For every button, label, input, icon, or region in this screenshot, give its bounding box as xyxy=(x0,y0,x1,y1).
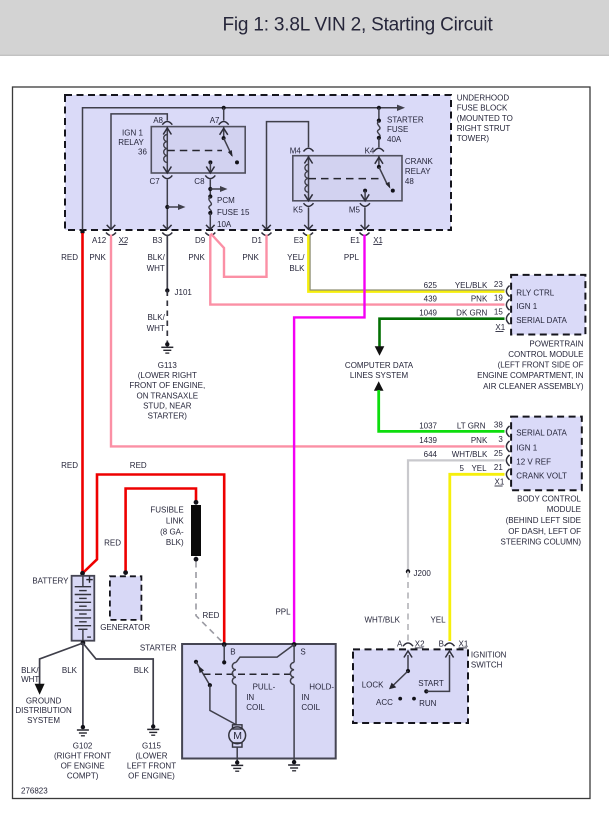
svg-text:BLK: BLK xyxy=(62,666,78,675)
starter S terminal xyxy=(292,642,297,647)
wire YEL/BLK E3 to PCM RLY CTRL xyxy=(308,235,504,292)
svg-text:IGNITION: IGNITION xyxy=(471,651,507,660)
svg-text:IGN 1: IGN 1 xyxy=(516,444,537,453)
module BCM (body control module) xyxy=(511,417,582,491)
svg-text:YEL/: YEL/ xyxy=(287,253,305,262)
svg-text:C7: C7 xyxy=(150,177,161,186)
svg-text:COIL: COIL xyxy=(246,703,265,712)
wire BLK/WHT dashed J101 to G113 xyxy=(166,291,168,345)
wire PNK jumper D9 to D1 xyxy=(211,234,267,277)
svg-text:Fig 1: 3.8L VIN 2, Starting Ci: Fig 1: 3.8L VIN 2, Starting Circuit xyxy=(223,15,494,36)
pin 3 IGN 1 xyxy=(506,441,509,452)
svg-text:10A: 10A xyxy=(217,220,232,229)
svg-text:BLK/: BLK/ xyxy=(21,666,39,675)
svg-text:WHT: WHT xyxy=(21,675,39,684)
svg-text:LINK: LINK xyxy=(166,517,184,526)
svg-text:LINES SYSTEM: LINES SYSTEM xyxy=(350,371,409,380)
svg-text:ACC: ACC xyxy=(376,698,393,707)
wire branch from C7 xyxy=(165,205,169,209)
relay 48 coil xyxy=(308,156,310,201)
fuse F40 STARTER FUSE xyxy=(378,108,380,121)
svg-text:POWERTRAIN: POWERTRAIN xyxy=(529,339,583,348)
svg-text:25: 25 xyxy=(494,449,503,458)
contact START to pin B xyxy=(424,689,428,693)
svg-text:OF ENGINE: OF ENGINE xyxy=(61,762,105,771)
svg-text:1049: 1049 xyxy=(419,309,437,318)
starter pull-in coil xyxy=(232,662,236,684)
svg-text:START: START xyxy=(418,679,444,688)
node A8 xyxy=(162,122,172,125)
svg-text:X1: X1 xyxy=(495,477,505,486)
svg-text:CRANK VOLT: CRANK VOLT xyxy=(516,472,567,481)
wire D1 riser to M4 xyxy=(267,122,309,229)
node M4 xyxy=(304,148,314,151)
svg-text:STARTER: STARTER xyxy=(140,643,177,652)
svg-text:FUSE: FUSE xyxy=(387,125,408,134)
svg-text:FUSE 15: FUSE 15 xyxy=(217,208,250,217)
svg-text:625: 625 xyxy=(424,281,438,290)
svg-text:X1: X1 xyxy=(459,639,469,648)
svg-text:YEL: YEL xyxy=(471,464,487,473)
svg-text:GROUND: GROUND xyxy=(26,696,62,705)
svg-text:S: S xyxy=(300,648,305,657)
relay 48 M5 stub xyxy=(363,189,367,193)
generator G1 xyxy=(123,570,128,575)
svg-text:(RIGHT FRONT: (RIGHT FRONT xyxy=(54,751,111,760)
ignition switch S1 xyxy=(353,649,468,723)
pin 19 IGN 1 xyxy=(506,299,509,310)
relay 48 switch xyxy=(378,156,380,167)
svg-text:1439: 1439 xyxy=(419,436,437,445)
svg-text:PPL: PPL xyxy=(344,253,360,262)
svg-text:TOWER): TOWER) xyxy=(457,134,490,143)
svg-text:RELAY: RELAY xyxy=(405,167,431,176)
svg-text:RED: RED xyxy=(203,611,220,620)
svg-text:BLK: BLK xyxy=(134,666,150,675)
svg-text:STARTER: STARTER xyxy=(387,115,424,124)
svg-text:PNK: PNK xyxy=(188,253,205,262)
svg-text:K4: K4 xyxy=(365,147,375,156)
svg-text:5: 5 xyxy=(459,464,464,473)
node J200 xyxy=(406,569,410,573)
svg-text:D9: D9 xyxy=(195,236,206,245)
svg-text:3: 3 xyxy=(498,435,503,444)
svg-text:YEL/BLK: YEL/BLK xyxy=(455,281,488,290)
pin A xyxy=(403,643,413,646)
svg-text:PNK: PNK xyxy=(471,436,488,445)
svg-text:LOCK: LOCK xyxy=(362,681,384,690)
svg-text:COIL: COIL xyxy=(301,703,320,712)
arrow to ground distribution system xyxy=(35,684,45,695)
pin E1 connector arc xyxy=(360,233,370,236)
wire WHT/BLK BCM 12V REF to J200 xyxy=(408,460,505,571)
wire BLK/WHT B3 to J101 xyxy=(166,235,168,291)
svg-text:IGN 1: IGN 1 xyxy=(122,129,143,138)
svg-text:CRANK: CRANK xyxy=(405,157,434,166)
relay U36 IGN 1 RELAY box xyxy=(151,127,245,173)
svg-text:RED: RED xyxy=(130,461,147,470)
pin B xyxy=(445,643,455,646)
svg-text:(LOWER: (LOWER xyxy=(136,751,168,760)
starter mechanical link xyxy=(204,673,294,675)
svg-text:G102: G102 xyxy=(73,741,93,750)
svg-text:40A: 40A xyxy=(387,135,402,144)
svg-text:DISTRIBUTION: DISTRIBUTION xyxy=(15,706,72,715)
svg-text:ENGINE COMPARTMENT, IN: ENGINE COMPARTMENT, IN xyxy=(477,371,584,380)
svg-text:BLK/: BLK/ xyxy=(147,313,165,322)
svg-text:STUD, NEAR: STUD, NEAR xyxy=(143,401,192,410)
svg-text:SERIAL DATA: SERIAL DATA xyxy=(516,316,567,325)
svg-text:SERIAL DATA: SERIAL DATA xyxy=(516,429,567,438)
svg-text:FRONT OF ENGINE,: FRONT OF ENGINE, xyxy=(129,381,205,390)
wire RED battery to starter B xyxy=(83,475,224,645)
svg-text:BLK): BLK) xyxy=(166,538,184,547)
svg-text:G115: G115 xyxy=(142,741,162,750)
svg-text:A7: A7 xyxy=(210,116,220,125)
svg-text:PPL: PPL xyxy=(275,608,291,617)
wire RED generator to fusible link xyxy=(126,489,196,572)
svg-text:ON TRANSAXLE: ON TRANSAXLE xyxy=(136,391,198,400)
relay 36 mechanical link xyxy=(167,150,222,152)
pin B3 connector arc xyxy=(162,233,172,236)
node C7 xyxy=(162,175,172,178)
svg-text:M4: M4 xyxy=(290,147,302,156)
svg-text:RED: RED xyxy=(61,461,78,470)
wire PNK D9 to PCM IGN 1 xyxy=(210,235,504,305)
ignition lever toward LOCK xyxy=(393,671,409,686)
svg-text:BODY CONTROL: BODY CONTROL xyxy=(517,494,581,503)
svg-text:RIGHT STRUT: RIGHT STRUT xyxy=(457,124,511,133)
svg-text:276823: 276823 xyxy=(21,787,48,796)
wire PPL E1 to starter S xyxy=(294,235,364,645)
wire X2 riser to A8 xyxy=(111,114,167,229)
svg-text:48: 48 xyxy=(405,177,414,186)
svg-text:439: 439 xyxy=(424,295,438,304)
svg-text:WHT: WHT xyxy=(147,324,165,333)
starter solenoid contact xyxy=(194,660,198,664)
battery B1 xyxy=(80,571,85,576)
svg-text:21: 21 xyxy=(494,463,503,472)
wire RED A12 to battery xyxy=(81,233,84,573)
svg-text:A8: A8 xyxy=(153,116,163,125)
svg-text:BLK/: BLK/ xyxy=(147,253,165,262)
ground G102 xyxy=(81,725,85,729)
svg-text:DK GRN: DK GRN xyxy=(456,309,487,318)
svg-text:IGN 1: IGN 1 xyxy=(516,302,537,311)
svg-text:M5: M5 xyxy=(349,206,361,215)
svg-text:C8: C8 xyxy=(194,177,205,186)
svg-text:(8 GA-: (8 GA- xyxy=(160,527,184,536)
svg-text:RUN: RUN xyxy=(419,699,437,708)
svg-text:IN: IN xyxy=(301,693,309,702)
svg-text:OF ENGINE): OF ENGINE) xyxy=(128,772,175,781)
pin 15 SERIAL DATA xyxy=(506,313,509,324)
node J101 xyxy=(165,288,169,292)
svg-text:COMPT): COMPT) xyxy=(67,772,99,781)
svg-text:YEL: YEL xyxy=(430,616,446,625)
svg-text:E1: E1 xyxy=(350,236,360,245)
relay 36 switch xyxy=(223,127,225,139)
wire WHT/BLK dashed J200 to ignition A xyxy=(407,572,409,642)
wire DK GRN PCM SERIAL DATA to data lines xyxy=(380,319,505,348)
relay 48 mechanical link xyxy=(309,178,381,180)
svg-text:(BEHIND LEFT SIDE: (BEHIND LEFT SIDE xyxy=(506,516,581,525)
fusible link F1 (8 GA BLK) xyxy=(194,500,199,505)
pin D9 connector arc xyxy=(205,233,215,236)
pin 38 SERIAL DATA xyxy=(506,426,509,437)
svg-text:1037: 1037 xyxy=(419,421,437,430)
svg-text:RLY CTRL: RLY CTRL xyxy=(516,288,554,297)
svg-text:SWITCH: SWITCH xyxy=(471,661,503,670)
svg-text:LT GRN: LT GRN xyxy=(457,421,486,430)
ground below motor xyxy=(235,760,239,764)
pin D1 connector arc xyxy=(262,233,272,236)
svg-text:A: A xyxy=(397,639,403,648)
svg-text:UNDERHOOD: UNDERHOOD xyxy=(457,94,510,103)
node A7 xyxy=(219,122,229,125)
svg-text:X2: X2 xyxy=(415,639,425,648)
svg-text:LEFT FRONT: LEFT FRONT xyxy=(127,762,176,771)
node K4 xyxy=(374,148,384,151)
svg-text:X1: X1 xyxy=(495,323,505,332)
svg-text:WHT/BLK: WHT/BLK xyxy=(364,616,400,625)
pin 23 RLY CTRL xyxy=(506,286,509,297)
node C8 xyxy=(205,175,215,178)
svg-text:GENERATOR: GENERATOR xyxy=(100,623,150,632)
node K5 xyxy=(304,203,314,206)
svg-text:G113: G113 xyxy=(158,361,178,370)
svg-text:RED: RED xyxy=(61,253,78,262)
svg-text:COMPUTER DATA: COMPUTER DATA xyxy=(345,361,414,370)
svg-text:WHT: WHT xyxy=(147,264,165,273)
contact ACC xyxy=(398,697,402,701)
svg-text:(LOWER RIGHT: (LOWER RIGHT xyxy=(138,371,197,380)
svg-text:J101: J101 xyxy=(175,288,193,297)
starter hold-in coil xyxy=(293,645,295,663)
starter B terminal xyxy=(222,642,227,647)
svg-text:OF DASH, LEFT OF: OF DASH, LEFT OF xyxy=(508,527,581,536)
svg-text:PNK: PNK xyxy=(89,253,106,262)
svg-text:HOLD-: HOLD- xyxy=(309,683,334,692)
svg-text:STEERING COLUMN): STEERING COLUMN) xyxy=(501,538,582,547)
svg-text:PNK: PNK xyxy=(242,253,259,262)
svg-text:B: B xyxy=(439,639,444,648)
contact RUN xyxy=(412,697,416,701)
wire S to pull-in coil xyxy=(236,645,294,663)
svg-text:SYSTEM: SYSTEM xyxy=(27,716,60,725)
svg-text:PCM: PCM xyxy=(217,196,235,205)
svg-text:BATTERY: BATTERY xyxy=(32,576,69,585)
svg-text:D1: D1 xyxy=(252,236,263,245)
svg-text:M: M xyxy=(233,730,242,742)
svg-text:38: 38 xyxy=(494,420,503,429)
svg-text:PULL-: PULL- xyxy=(253,683,276,692)
svg-text:B3: B3 xyxy=(153,236,163,245)
module PCM (powertrain control module) xyxy=(511,275,585,335)
svg-text:FUSIBLE: FUSIBLE xyxy=(150,506,183,515)
svg-text:B: B xyxy=(230,648,235,657)
pin 21 CRANK VOLT xyxy=(506,469,509,480)
svg-text:X2: X2 xyxy=(119,236,129,245)
svg-text:IN: IN xyxy=(246,693,254,702)
svg-text:PNK: PNK xyxy=(471,295,488,304)
wire A12 feed riser and top bus xyxy=(83,108,399,232)
svg-text:19: 19 xyxy=(494,294,503,303)
node M5 xyxy=(360,203,370,206)
pin E3 connector arc xyxy=(303,233,313,236)
pin X2 connector arc xyxy=(106,233,116,236)
motor M xyxy=(233,725,243,729)
svg-text:BLK: BLK xyxy=(289,264,305,273)
svg-text:AIR CLEANER ASSEMBLY): AIR CLEANER ASSEMBLY) xyxy=(483,382,584,391)
svg-text:15: 15 xyxy=(494,308,503,317)
svg-text:(LEFT FRONT SIDE OF: (LEFT FRONT SIDE OF xyxy=(498,361,584,370)
svg-text:WHT/BLK: WHT/BLK xyxy=(452,450,488,459)
svg-text:RELAY: RELAY xyxy=(118,138,144,147)
svg-text:MODULE: MODULE xyxy=(547,505,581,514)
fuse F15 PCM FUSE xyxy=(208,194,212,198)
header bar xyxy=(0,0,609,56)
underhood fuse block xyxy=(65,95,451,230)
wire branch from C8 xyxy=(208,187,212,191)
svg-text:FUSE BLOCK: FUSE BLOCK xyxy=(457,104,508,113)
svg-text:12 V REF: 12 V REF xyxy=(516,458,551,467)
svg-text:K5: K5 xyxy=(293,206,303,215)
svg-text:23: 23 xyxy=(494,280,503,289)
svg-text:(MOUNTED TO: (MOUNTED TO xyxy=(457,114,513,123)
relay 36 coil xyxy=(166,127,168,173)
wire RED dashed fusible link to starter B xyxy=(196,562,224,644)
wire YEL BCM CRANK VOLT to ignition B xyxy=(450,474,505,641)
relay 48 CRANK RELAY box xyxy=(293,156,402,201)
ground below hold-in coil xyxy=(292,760,296,764)
pin 25 12 V REF xyxy=(506,455,509,466)
ignition pivot to pin A xyxy=(407,655,409,671)
svg-text:STARTER): STARTER) xyxy=(148,412,188,421)
svg-text:E3: E3 xyxy=(294,236,304,245)
svg-text:J200: J200 xyxy=(414,569,432,578)
ground G113 xyxy=(165,342,169,346)
svg-text:RED: RED xyxy=(104,538,121,547)
svg-text:36: 36 xyxy=(138,148,147,157)
battery ground branches xyxy=(40,643,83,684)
wire PNK X2 to BCM IGN 1 xyxy=(111,235,505,447)
svg-text:644: 644 xyxy=(424,450,438,459)
svg-text:CONTROL MODULE: CONTROL MODULE xyxy=(508,350,583,359)
svg-text:X1: X1 xyxy=(373,236,383,245)
svg-text:A12: A12 xyxy=(92,236,107,245)
ground G115 xyxy=(151,724,155,728)
wire LT GRN data lines to BCM SERIAL DATA xyxy=(374,381,384,391)
